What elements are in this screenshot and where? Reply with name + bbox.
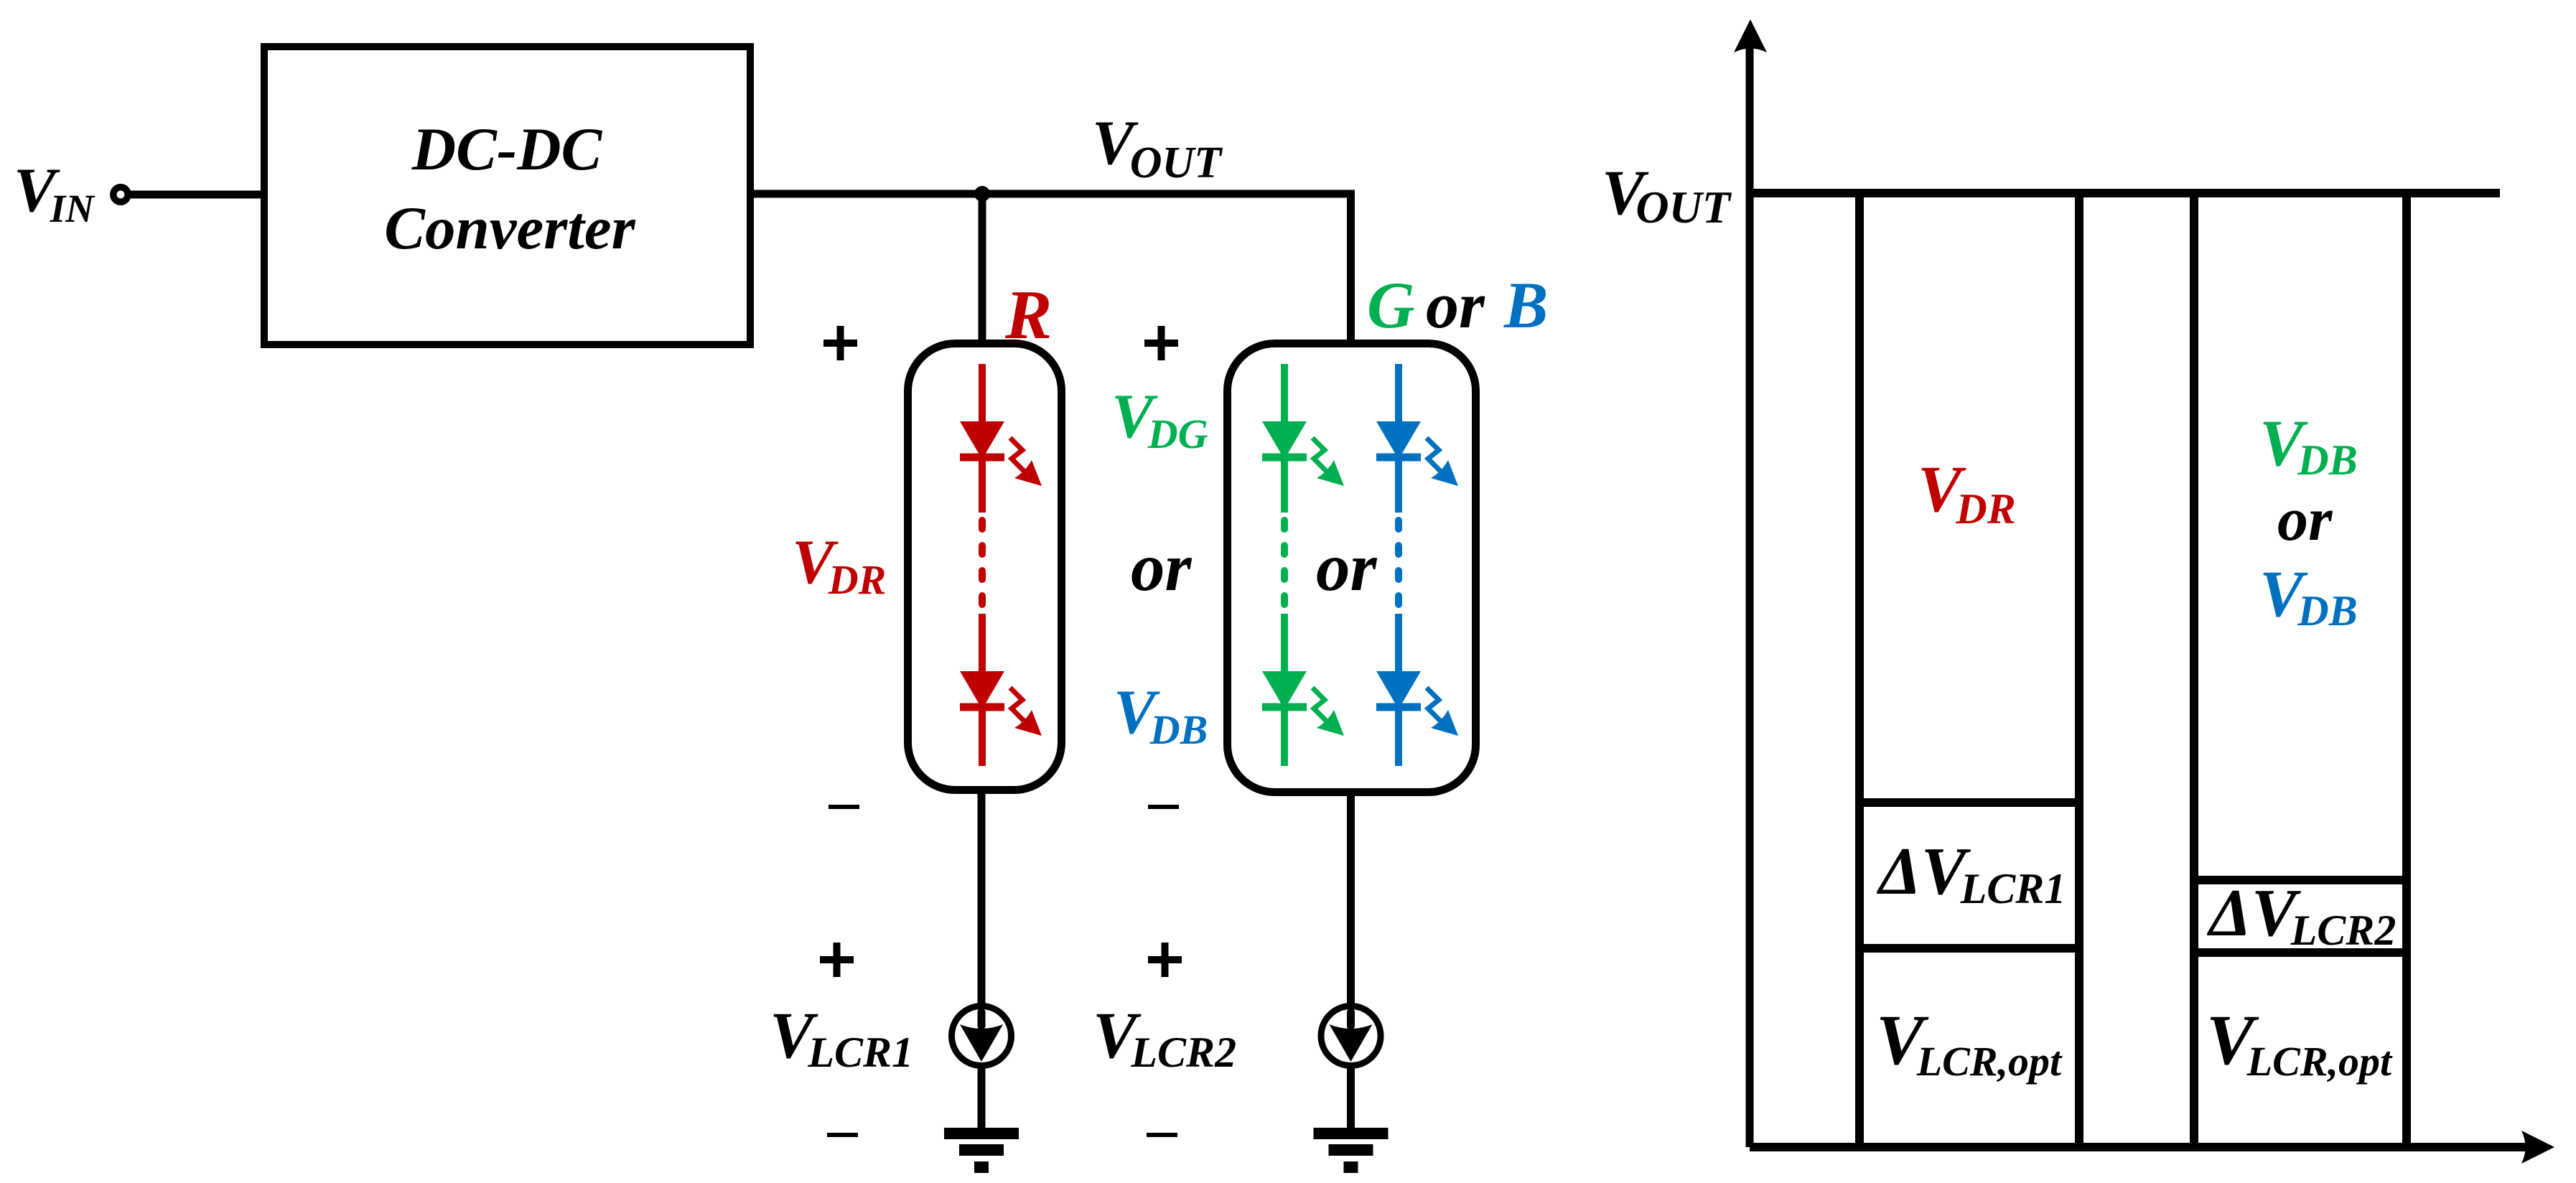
- minus sign VLCR1: [827, 1133, 858, 1137]
- minus sign VDR: [829, 805, 859, 809]
- chart VOUT level line: [1750, 189, 2500, 197]
- minus sign VLCR2: [1147, 1133, 1177, 1137]
- bar VDB divider 1: [2194, 876, 2407, 884]
- node junction dot: [974, 186, 990, 202]
- bar VDR right edge: [2075, 193, 2083, 1147]
- wire junction down to LED string R: [979, 194, 986, 345]
- svg-text:or: or: [1316, 529, 1378, 605]
- wire LED string G/B to LCR2: [1347, 792, 1355, 1005]
- svg-text:ΔVLCR1: ΔVLCR1: [1876, 834, 2066, 912]
- svg-text:GorB: GorB: [1367, 268, 1548, 342]
- current source LCR2: [1321, 1006, 1381, 1066]
- svg-text:VOUT: VOUT: [1092, 108, 1223, 187]
- DC-DC converter block: [264, 47, 750, 345]
- svg-text:or: or: [1131, 529, 1193, 605]
- plus sign VDG/VDB: [1144, 326, 1178, 360]
- svg-text:Converter: Converter: [384, 195, 635, 262]
- svg-text:VDG: VDG: [1111, 382, 1208, 457]
- LED string G diodes: [1262, 364, 1344, 766]
- wire VOUT down to LED string G/B: [1347, 194, 1355, 345]
- plus sign VLCR1: [820, 943, 854, 977]
- svg-text:VIN: VIN: [14, 156, 95, 230]
- chart y-axis arrowhead: [1734, 19, 1767, 52]
- svg-text:VDB: VDB: [2259, 406, 2358, 484]
- wire VIN to converter: [130, 191, 264, 199]
- plus sign VDR: [823, 326, 857, 360]
- svg-text:VLCR,opt: VLCR,opt: [2206, 1000, 2393, 1085]
- bar VDR divider 2: [1859, 944, 2079, 953]
- svg-text:VDR: VDR: [792, 528, 886, 603]
- bar VDR divider 1: [1859, 798, 2079, 807]
- LED string G/B enclosure: [1228, 344, 1476, 792]
- chart x-axis arrowhead: [2521, 1131, 2554, 1164]
- ground 2: [1314, 1128, 1389, 1173]
- bar VDB left edge: [2190, 193, 2198, 1147]
- bar VDR left edge: [1855, 193, 1864, 1147]
- input terminal VIN: [113, 187, 128, 202]
- svg-text:VLCR,opt: VLCR,opt: [1876, 1000, 2063, 1085]
- LED string R enclosure: [908, 344, 1062, 790]
- svg-text:VDR: VDR: [1918, 452, 2016, 533]
- wire LCR1 to ground: [978, 1067, 986, 1129]
- ground 1: [944, 1128, 1019, 1173]
- svg-text:DC-DC: DC-DC: [411, 116, 603, 183]
- bar VDB divider 2: [2194, 948, 2407, 957]
- svg-text:VOUT: VOUT: [1602, 158, 1732, 233]
- wire VOUT horizontal: [750, 190, 1355, 198]
- plus sign VLCR2: [1148, 943, 1182, 977]
- svg-text:VDB: VDB: [1114, 678, 1208, 753]
- svg-text:or: or: [2277, 485, 2333, 553]
- wire LED string R to LCR1: [978, 790, 986, 1005]
- LED string R diodes: [960, 364, 1042, 766]
- svg-text:VLCR1: VLCR1: [770, 999, 913, 1076]
- wire LCR2 to ground: [1347, 1067, 1355, 1129]
- svg-text:VLCR2: VLCR2: [1093, 999, 1236, 1076]
- svg-text:VDB: VDB: [2259, 557, 2358, 635]
- current source LCR1: [952, 1006, 1012, 1066]
- svg-text:ΔVLCR2: ΔVLCR2: [2206, 876, 2396, 954]
- chart y-axis: [1746, 43, 1754, 1147]
- chart x-axis: [1750, 1143, 2534, 1151]
- bar VDB right edge: [2402, 193, 2411, 1147]
- minus sign VDG/VDB: [1148, 805, 1179, 809]
- LED string B diodes: [1376, 364, 1458, 766]
